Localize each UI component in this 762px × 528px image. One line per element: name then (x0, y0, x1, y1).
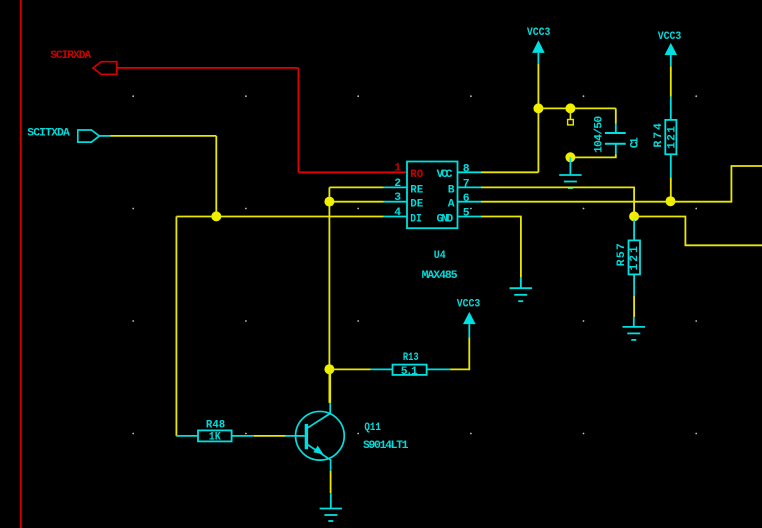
svg-text:VCC: VCC (437, 169, 453, 181)
power VCC3 top-1 stem (537, 53, 539, 64)
pin 3 stub (384, 201, 408, 203)
wire emitter to ground (330, 471, 332, 494)
no-erc square marker (568, 120, 574, 125)
resistor R57 top stub (633, 220, 635, 240)
grid dots (132, 95, 697, 434)
svg-text:A: A (448, 199, 455, 211)
resistor R48 body (198, 430, 232, 441)
svg-text:RE: RE (410, 184, 423, 196)
port SCITXDA stub (99, 135, 110, 137)
svg-text:8: 8 (463, 164, 470, 176)
node junction H (629, 211, 639, 221)
svg-text:MAX485: MAX485 (422, 270, 458, 282)
power VCC3 top-2 stem (670, 55, 672, 66)
svg-text:5: 5 (463, 208, 470, 220)
svg-text:3: 3 (394, 192, 401, 204)
transistor Q11 base bar (305, 424, 308, 449)
ground below Q11 (320, 493, 342, 521)
wire pin 6 A net (481, 166, 762, 202)
stub to no-erc square (569, 108, 571, 119)
resistor R74 body (665, 120, 676, 154)
svg-text:S9014LT1: S9014LT1 (363, 440, 409, 452)
svg-text:B: B (448, 184, 455, 196)
svg-text:R74: R74 (653, 123, 665, 148)
wire B net staircase to edge (634, 217, 762, 246)
svg-text:6: 6 (463, 193, 470, 205)
capacitor C1 bottom lead (615, 144, 617, 155)
power VCC3 top-1 arrow (532, 40, 545, 53)
svg-text:VCC3: VCC3 (527, 27, 551, 39)
wire R57 to ground (633, 296, 635, 317)
pin 7 stub (458, 186, 482, 188)
svg-text:R48: R48 (206, 419, 225, 431)
wire R48 row left corner (176, 435, 177, 437)
wire pin 8 to VCC (481, 171, 538, 173)
resistor R13 right stub (427, 368, 451, 370)
node junction D (533, 103, 543, 113)
power VCC3 top-2 arrow (665, 43, 678, 55)
node junction G (666, 196, 676, 206)
transistor Q11 circle (296, 411, 345, 460)
svg-text:DE: DE (410, 199, 423, 211)
ground below pin 5 (510, 277, 533, 301)
power VCC3 mid arrow (463, 312, 476, 324)
svg-text:4: 4 (394, 207, 401, 219)
wire SCITXDA vertical (215, 136, 217, 217)
resistor R13 left stub (371, 368, 393, 370)
svg-text:2: 2 (394, 178, 401, 190)
resistor R57 bottom stub (633, 274, 635, 296)
resistor R13 body (393, 365, 427, 375)
wire VCC3 mid to R13 (450, 337, 469, 369)
svg-text:7: 7 (463, 179, 470, 191)
svg-text:SCITXDA: SCITXDA (27, 127, 70, 139)
wire SCIRXDA horizontal (117, 67, 299, 69)
wire R74 to A net (670, 177, 672, 201)
wire to pin 3 DE (329, 201, 383, 203)
wire B net to R57 (633, 217, 635, 221)
resistor R57 body (629, 240, 641, 274)
wire R48 to base (254, 435, 286, 437)
svg-text:R13: R13 (403, 352, 419, 364)
wire to pin 2 RE (329, 186, 383, 188)
svg-text:104/50: 104/50 (594, 116, 606, 153)
wire node to pin 4 DI (176, 216, 383, 218)
wire VCC rail horizontal (538, 107, 615, 109)
op-amp U1 = IC U4 box (407, 162, 458, 229)
svg-text:5.1: 5.1 (401, 366, 418, 378)
svg-text:GND: GND (437, 213, 454, 225)
transistor Q11 collector pin (308, 403, 330, 428)
wire R13 to junction C (329, 368, 370, 370)
svg-text:121: 121 (629, 246, 641, 270)
svg-text:RO: RO (410, 169, 423, 181)
port SCITXDA (78, 130, 100, 142)
transistor Q11 emitter arrow (313, 446, 323, 455)
wire SCIRXDA to pin 1 (298, 171, 407, 173)
pin 4 stub (384, 216, 408, 218)
capacitor C1 plates (605, 132, 626, 134)
capacitor C1 top lead (615, 124, 617, 134)
resistor R74 top stub (670, 97, 672, 120)
wire VCC3-1 vertical (537, 64, 539, 172)
wire pin 7 B net (481, 187, 634, 216)
svg-text:VCC3: VCC3 (658, 31, 682, 43)
pin 8 stub (458, 171, 482, 173)
resistor R74 bottom stub (670, 154, 672, 177)
ground below C1 (559, 157, 581, 188)
wire SCITXDA horizontal (111, 135, 217, 137)
wire left vertical to R48 (175, 217, 177, 436)
svg-text:U4: U4 (434, 250, 446, 262)
node junction E (565, 103, 575, 113)
node junction A (211, 211, 221, 221)
svg-text:1K: 1K (209, 432, 221, 444)
svg-text:121: 121 (666, 126, 678, 149)
svg-text:1: 1 (394, 163, 401, 175)
pin 2 stub (384, 186, 408, 188)
node junction B (324, 197, 334, 207)
wire junction C to collector (329, 369, 331, 403)
transistor Q11 emitter pin (308, 445, 331, 471)
pin 6 stub (458, 201, 482, 203)
svg-text:VCC3: VCC3 (457, 299, 481, 311)
node junction C (324, 364, 334, 374)
power VCC3 mid stem (468, 324, 470, 337)
sheet border (red vertical line) (20, 0, 22, 528)
resistor R48 right stub (232, 435, 254, 437)
wire VCC3-2 to R74 (670, 66, 672, 96)
svg-text:C1: C1 (630, 137, 642, 148)
wire pin 5 to ground (481, 217, 521, 278)
port SCIRXDA (93, 62, 117, 75)
resistor R48 left stub (176, 435, 198, 437)
transistor Q11 base stub (286, 435, 305, 437)
svg-text:SCIRXDA: SCIRXDA (50, 50, 91, 62)
svg-text:Q11: Q11 (364, 422, 381, 434)
wire down to C1 (615, 108, 617, 123)
svg-text:R57: R57 (616, 243, 628, 266)
wire SCIRXDA vertical (297, 68, 299, 172)
wire pins 2-3 vertical bus (328, 187, 330, 403)
wire C1 to ground (570, 154, 615, 157)
ground below R57 (623, 317, 646, 340)
pin 5 stub (458, 216, 482, 218)
svg-text:DI: DI (410, 213, 422, 225)
node junction F (565, 152, 575, 162)
